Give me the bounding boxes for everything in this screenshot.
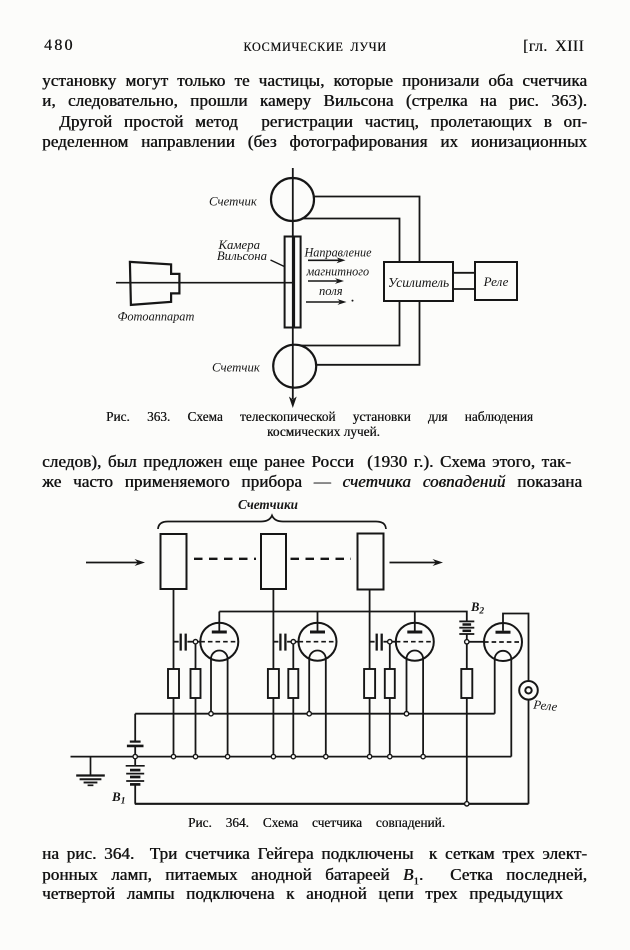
relay coil bbox=[519, 681, 538, 700]
arrowhead of axis (downward) bbox=[289, 397, 297, 409]
svg-text:Счетчик: Счетчик bbox=[212, 361, 261, 375]
wire: C2 to grid node 2 bbox=[287, 641, 298, 643]
svg-text:магнитного: магнитного bbox=[306, 265, 370, 279]
wire: V2 cathode left leg to filament bus bbox=[308, 659, 310, 714]
grid node circle 3 bbox=[388, 640, 392, 644]
svg-text:поля: поля bbox=[319, 284, 343, 298]
header bbox=[44, 37, 75, 55]
wire vertical axis through counters bbox=[292, 168, 294, 399]
brace over counters bbox=[158, 516, 386, 530]
dashed particle path 2-3 bbox=[291, 558, 352, 560]
junction node: V2 cathode on ground bus bbox=[324, 754, 328, 758]
wire: C3 to grid node 3 bbox=[383, 641, 395, 643]
anode bus wire bbox=[219, 612, 466, 622]
tube V2 plate bbox=[310, 631, 325, 634]
battery B2 bbox=[459, 621, 474, 639]
tube V2 envelope bbox=[299, 623, 337, 661]
junction node: bias cell to ground bus bbox=[133, 754, 137, 758]
capacitor C2 bbox=[273, 641, 278, 643]
tube V3 envelope bbox=[396, 623, 434, 661]
tube V1 envelope bbox=[200, 623, 238, 661]
grid node circle 2 bbox=[291, 640, 295, 644]
photo camera body bbox=[130, 262, 180, 305]
caption 364 bbox=[188, 815, 445, 831]
wire: counter1 stub down to resistor R1 bbox=[173, 589, 175, 669]
svg-text:Направление: Направление bbox=[304, 246, 373, 260]
wire: V4 cathode left leg to filament bus end bbox=[494, 659, 496, 714]
wire: amplifier to bottom counter (inner) bbox=[300, 301, 399, 346]
wire: counter2 stub down to resistor R3 bbox=[272, 589, 274, 669]
capacitor C3 bbox=[370, 641, 375, 643]
junction node: R5 on ground bus bbox=[367, 754, 371, 758]
wire amplifier-relay lower bbox=[453, 288, 475, 290]
resistor R3 bbox=[268, 669, 279, 698]
tube V4 envelope bbox=[484, 623, 522, 661]
svg-text:Реле: Реле bbox=[483, 274, 509, 289]
junction node: V3 cathode on ground bus bbox=[421, 754, 425, 758]
grid bias node circle under B2 bbox=[465, 640, 469, 644]
wire: top counter to amplifier (inner) bbox=[303, 219, 400, 263]
paragraph 1 bbox=[42, 72, 587, 89]
wire: V2 cathode right leg to ground bus bbox=[325, 659, 327, 757]
wire: grid node 3 down to resistor R6 bbox=[389, 644, 391, 669]
wire: V3 cathode right leg to ground bus bbox=[422, 659, 424, 757]
wire: R6 bottom to ground bus bbox=[389, 698, 391, 757]
wire: V4 plate to relay bbox=[503, 614, 529, 682]
svg-text:В2: В2 bbox=[470, 600, 484, 617]
resistor R4 bbox=[288, 669, 298, 698]
junction node: V1 cathode on ground bus bbox=[225, 754, 229, 758]
wire amplifier-relay upper bbox=[453, 272, 475, 274]
arrow exiting right bbox=[390, 562, 437, 564]
ground symbol bbox=[76, 757, 105, 786]
wire: R3 bottom to ground bus bbox=[272, 698, 274, 757]
wire: V4 cathode right leg to ground bus end bbox=[510, 659, 512, 757]
resistor R5 bbox=[364, 669, 375, 698]
chamber inner divider bbox=[293, 237, 295, 327]
tube V2 cathode bbox=[309, 651, 326, 659]
svg-text:Счетчики: Счетчики bbox=[238, 497, 298, 512]
wire: B2 node down to resistor R7 bbox=[466, 644, 468, 669]
junction node: R6 on ground bus bbox=[388, 754, 392, 758]
amplifier U1 box bbox=[384, 262, 453, 301]
svg-text:Реле: Реле bbox=[532, 697, 559, 714]
svg-text:В1: В1 bbox=[111, 789, 126, 807]
tube V1 plate bbox=[212, 631, 227, 634]
junction node: R7 on bottom supply wire bbox=[465, 802, 469, 806]
resistor R1 bbox=[168, 669, 179, 698]
wire: C1 to grid node 1 bbox=[187, 641, 200, 643]
wire: relay to bottom supply wire bbox=[528, 700, 530, 804]
wire: counter3 stub down to resistor R5 bbox=[369, 590, 371, 670]
battery B1 bbox=[126, 759, 145, 804]
field arrow 1 bbox=[308, 259, 339, 261]
bottom supply wire bbox=[135, 803, 529, 805]
field arrow 2 bbox=[308, 280, 338, 282]
junction node: R2 on ground bus bbox=[193, 754, 197, 758]
counter (bottom Geiger tube) bbox=[273, 345, 316, 388]
counter tube 3 bbox=[358, 534, 384, 590]
wire: grid node 1 down to resistor R2 bbox=[195, 644, 197, 669]
svg-text:Усилитель: Усилитель bbox=[388, 275, 449, 290]
resistor R6 bbox=[385, 669, 395, 698]
ground bus wire bbox=[71, 756, 512, 758]
tube V1 cathode bbox=[211, 651, 228, 659]
tube V3 plate bbox=[407, 631, 422, 634]
wire: V1 cathode right leg to ground bus bbox=[227, 659, 229, 757]
svg-text:Вильсона: Вильсона bbox=[217, 249, 267, 263]
counter tube 2 bbox=[261, 534, 286, 589]
wire: B2 to grid of V4 bbox=[469, 641, 484, 643]
relay box bbox=[475, 262, 517, 300]
pointer line from label to chamber bbox=[271, 260, 285, 267]
tube V4 plate bbox=[496, 631, 511, 634]
wire: V1 cathode left leg to filament bus bbox=[210, 659, 212, 714]
figure 364: coincidence counter circuit bbox=[60, 495, 580, 810]
resistor R2 bbox=[191, 669, 201, 698]
Wilson cloud chamber body bbox=[285, 237, 301, 328]
paragraph 3 bbox=[42, 845, 587, 862]
wire: top counter to amplifier (outer) bbox=[313, 197, 419, 263]
wire: optical axis from camera to chamber bbox=[116, 282, 294, 284]
svg-text:Счетчик: Счетчик bbox=[209, 195, 258, 209]
tube V3 grid (dashed) bbox=[396, 641, 434, 643]
dashed particle path 1-2 bbox=[194, 558, 256, 560]
filament bus wire bbox=[135, 713, 495, 715]
figure 363: telescopic counter setup bbox=[80, 162, 540, 412]
wire: grid node 2 down to resistor R4 bbox=[292, 644, 294, 669]
wire: R1 bottom to ground bus bbox=[173, 698, 175, 757]
junction node: R3 on ground bus bbox=[271, 754, 275, 758]
paragraph 2 bbox=[42, 453, 571, 470]
wire: R7 to bottom supply wire bbox=[466, 698, 468, 804]
grid node circle 1 bbox=[193, 640, 197, 644]
junction node: V1 cathode on filament bus bbox=[209, 712, 213, 716]
caption 363 bbox=[106, 409, 533, 425]
junction node: R4 on ground bus bbox=[291, 754, 295, 758]
tube V4 cathode bbox=[495, 651, 512, 659]
tube V3 cathode bbox=[407, 651, 424, 659]
junction node: V2 cathode on filament bus bbox=[307, 712, 311, 716]
capacitor C1 bbox=[174, 641, 179, 643]
junction node: V3 cathode on filament bus bbox=[404, 712, 408, 716]
junction node: R1 on ground bus bbox=[171, 754, 175, 758]
tube V1 grid (dashed) bbox=[200, 641, 238, 643]
field arrow 3 bbox=[306, 301, 340, 303]
arrow entering left bbox=[86, 562, 138, 564]
wire: V3 cathode left leg to filament bus bbox=[406, 659, 408, 714]
tube V2 grid (dashed) bbox=[299, 641, 337, 643]
stray print dot bbox=[352, 300, 354, 302]
bias cell above ground bus bbox=[127, 714, 144, 755]
wire: R4 bottom to ground bus bbox=[292, 698, 294, 757]
counter (top Geiger tube) bbox=[271, 178, 314, 221]
wire: amplifier to bottom counter (outer) bbox=[316, 301, 420, 365]
wire: R2 bottom to ground bus bbox=[195, 698, 197, 757]
svg-text:Фотоаппарат: Фотоаппарат bbox=[118, 310, 195, 324]
wire: R5 bottom to ground bus bbox=[369, 698, 371, 757]
tube V4 grid (dashed) bbox=[484, 641, 522, 643]
counter tube 1 bbox=[161, 534, 187, 589]
resistor R7 bbox=[461, 669, 472, 698]
